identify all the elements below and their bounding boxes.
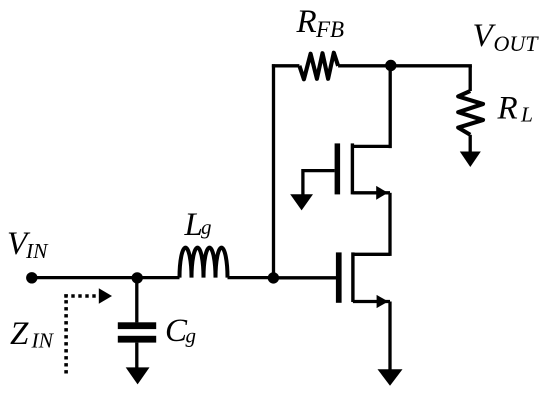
arrowhead: Z_IN probe [99,288,112,304]
transistor M2 gate lead [303,171,335,195]
capacitor C_g top plate [118,322,156,329]
wire: R_FB to output node [338,64,391,67]
transistor M1 source arrow [377,295,389,308]
svg-text:R: R [497,91,518,127]
transistor M2 source arrow [376,186,388,200]
node: gate/feedback node [268,272,279,283]
wire: R_FB row left lead [272,64,300,67]
wire: input node to L_g [137,276,180,279]
ground: M1 source [378,369,403,386]
svg-text:L: L [520,103,533,127]
transistor M1 gate bar [336,252,342,302]
inductor L_g [180,248,228,278]
wire: V_IN to input node [32,276,137,279]
capacitor C_g bottom plate [118,336,156,343]
transistor M1 channel [351,252,354,302]
transistor M2 drain leg [352,145,390,148]
wire: input node down to C_g [135,278,138,323]
svg-text:R: R [296,4,317,40]
wire: C_g to ground lead [135,343,138,369]
svg-text:Z: Z [10,316,29,352]
wire: L_g to gate node [228,276,274,279]
transistor M2 source leg [352,191,390,194]
svg-text:IN: IN [25,239,49,263]
dotted wire: Z_IN probe vertical [64,294,68,373]
wire: feedback rail (gate node up to R_FB) [272,64,275,277]
ground: R_L [460,152,481,168]
wire: R_L bottom lead [469,135,472,153]
svg-text:g: g [186,324,197,348]
ground: M2 gate [290,194,313,210]
transistor M1 drain leg [353,253,390,256]
svg-text:IN: IN [31,329,55,353]
svg-text:OUT: OUT [494,31,540,56]
terminal dot V_IN [26,272,37,283]
node: output node [385,60,396,71]
ground: C_g [126,367,150,384]
wire: M2 source to M1 drain rail [388,193,391,256]
svg-text:FB: FB [315,17,344,42]
resistor R_FB [299,53,338,80]
wire: output node down to M2 drain leg [389,66,392,149]
transistor M2 channel [351,143,354,194]
transistor M1 source leg [353,300,390,303]
wire: output node to R_L corner [391,64,472,67]
wire: gate node to M1 gate [274,276,337,279]
svg-text:g: g [201,215,212,239]
wire: R_L top lead [469,66,472,91]
node: input node (C_g tap) [132,272,143,283]
wire: M1 source down to ground [388,302,391,371]
resistor R_L [458,91,483,135]
dotted wire: Z_IN probe horizontal [64,294,97,298]
svg-text:L: L [184,207,203,243]
transistor M2 gate bar [335,143,341,194]
